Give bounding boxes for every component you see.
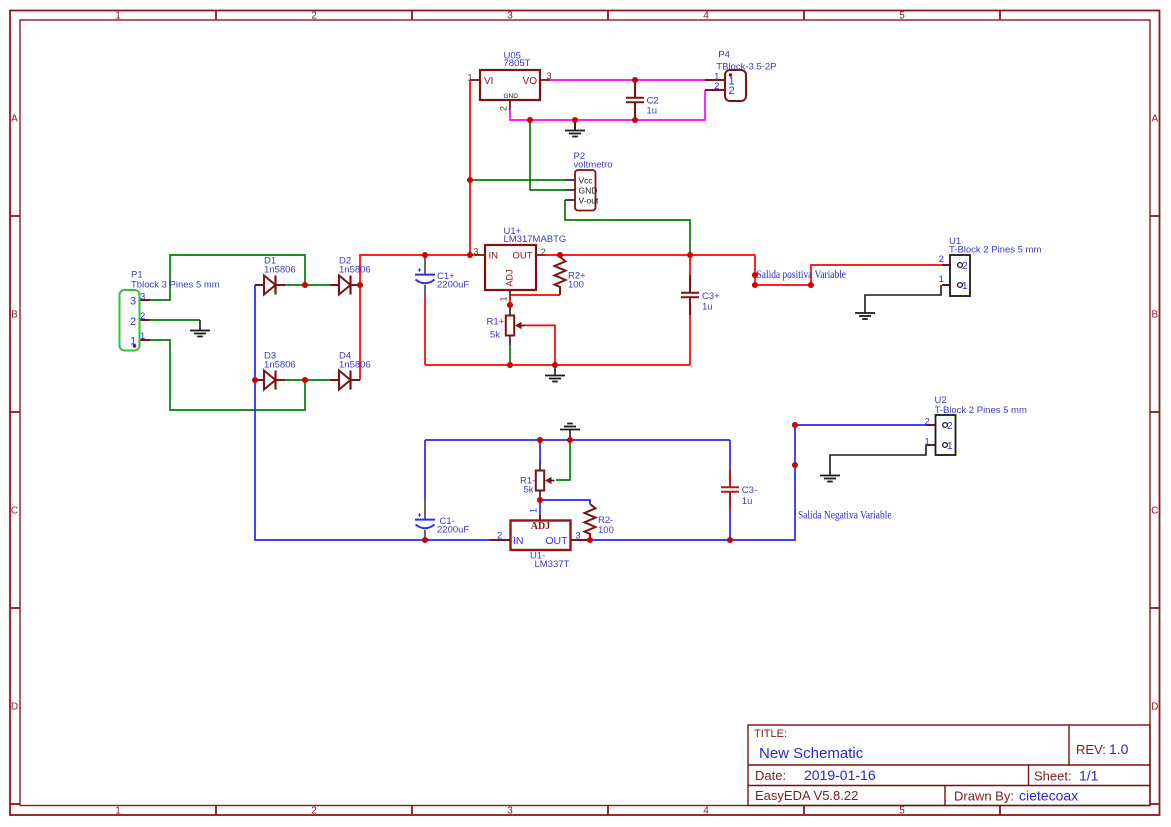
wire R1- wiper to ground rail (green) (556, 440, 570, 480)
svg-text:R1+: R1+ (487, 316, 505, 327)
wire U1 pin1 to ground (black) (865, 285, 941, 303)
net label Salida positiva Variable (757, 269, 847, 281)
svg-text:cietecoax: cietecoax (1019, 788, 1078, 804)
junction at 690,255 (687, 252, 693, 258)
svg-text:3: 3 (575, 531, 580, 542)
svg-text:TBlock-3.5-2P: TBlock-3.5-2P (716, 61, 776, 72)
svg-text:B: B (1151, 310, 1158, 321)
capacitor C1+ 2200uF (electrolytic) (415, 255, 469, 295)
svg-text:1u: 1u (647, 106, 658, 117)
svg-text:ADJ: ADJ (505, 269, 515, 286)
wire R2+ bottom to ADJ (red) (510, 294, 560, 296)
svg-text:7805T: 7805T (504, 58, 531, 69)
junction at 811,285 (808, 282, 814, 288)
svg-text:LM317MABTG: LM317MABTG (504, 234, 567, 245)
svg-text:2200uF: 2200uF (437, 525, 469, 536)
junction at 755,275 (752, 272, 758, 278)
wire P1 pin2 to ground (green) (150, 319, 200, 321)
svg-text:REV:: REV: (1076, 742, 1106, 757)
wire C3- bottom branch (blue) (729, 509, 731, 540)
svg-text:1n5806: 1n5806 (339, 359, 371, 370)
wire negative top rail (blue) (425, 439, 730, 441)
svg-text:1u: 1u (702, 301, 713, 312)
svg-text:1u: 1u (742, 496, 753, 507)
svg-text:Tblock 3 Pines 5 mm: Tblock 3 Pines 5 mm (131, 280, 220, 291)
regulator U05 7805T (467, 50, 551, 111)
wire C3+ bottom (red) (689, 315, 691, 365)
junction at 635,80 (632, 77, 638, 83)
junction at 590,540 (587, 537, 593, 543)
svg-text:1: 1 (115, 806, 121, 817)
junction at 795,465 (792, 462, 798, 468)
svg-text:1: 1 (924, 437, 929, 448)
wire U05 VO to P4 pin1 (magenta) (550, 79, 705, 81)
wire +OUT to U1 pin2 (red) (755, 255, 942, 285)
wire P2 GND (green) (530, 120, 565, 190)
wire ADJ- node to U1- ADJ pin (blue) (539, 500, 541, 515)
svg-text:2: 2 (714, 81, 719, 92)
svg-text:2200uF: 2200uF (437, 279, 469, 290)
svg-text:D: D (11, 702, 18, 713)
wire C1+ to bottom +rail (red) (424, 295, 426, 365)
wire C3- top branch (blue) (729, 440, 731, 470)
capacitor C2 1u (626, 80, 659, 120)
svg-text:LM337T: LM337T (535, 559, 570, 570)
svg-text:3: 3 (507, 11, 513, 22)
svg-text:V-out: V-out (579, 196, 599, 206)
diode D1 1n5806 (255, 284, 264, 286)
regulator U1+ LM317MABTG (473, 226, 566, 302)
svg-text:Sheet:: Sheet: (1034, 769, 1072, 784)
ground U1 pin1 (864, 303, 866, 313)
svg-text:3: 3 (473, 246, 478, 256)
wire P2 Vcc (green) (470, 179, 565, 181)
svg-text:1: 1 (962, 281, 968, 292)
junction at 635,120 (632, 117, 638, 123)
svg-text:1: 1 (130, 335, 136, 347)
connector P2 voltmetro (565, 151, 613, 211)
svg-text:1: 1 (939, 274, 944, 285)
capacitor C1- 2200uF (electrolytic) (415, 500, 469, 540)
ground negative top rail (flipped) (569, 430, 571, 440)
svg-text:1: 1 (529, 508, 539, 513)
wire C3+ top (red) (689, 255, 691, 275)
svg-text:voltmetro: voltmetro (574, 160, 613, 171)
svg-text:2: 2 (541, 247, 546, 257)
potentiometer R1+ 5k (487, 305, 525, 365)
svg-text:Vcc: Vcc (579, 176, 594, 186)
svg-text:2: 2 (924, 417, 929, 428)
junction at 510,365 (507, 362, 513, 368)
wire C1- top branch (blue) (424, 440, 426, 500)
svg-text:2: 2 (311, 11, 317, 22)
junction at 555,365 (552, 362, 558, 368)
ground U2 pin1 (829, 465, 831, 475)
wire ADJ+ pin to R1+ (red) (509, 300, 511, 305)
junction at 425,255 (422, 252, 428, 258)
svg-text:2: 2 (499, 106, 509, 111)
svg-text:Date:: Date: (755, 768, 786, 783)
svg-text:100: 100 (598, 525, 614, 536)
svg-text:A: A (11, 114, 18, 125)
svg-text:TITLE:: TITLE: (754, 728, 787, 740)
svg-text:1n5806: 1n5806 (264, 264, 296, 275)
wire D1 cathode to D2 anode (green) (285, 284, 330, 286)
diode D4 1n5806 (330, 379, 339, 381)
svg-text:P4: P4 (718, 50, 730, 61)
svg-text:1: 1 (115, 11, 121, 22)
svg-text:5: 5 (899, 806, 905, 817)
svg-text:5k: 5k (490, 330, 500, 341)
potentiometer R1- 5k (520, 461, 555, 500)
svg-text:2: 2 (140, 311, 145, 322)
wire +OUT rail (red) (546, 254, 755, 256)
regulator U1- LM337T (490, 508, 590, 570)
svg-text:VO: VO (523, 76, 538, 87)
svg-text:1: 1 (140, 331, 145, 342)
svg-text:Salida positiva Variable: Salida positiva Variable (757, 269, 847, 281)
svg-text:1: 1 (499, 296, 509, 301)
junction at 470,180 (467, 177, 473, 183)
svg-text:2: 2 (728, 85, 734, 97)
wire ADJ- node to R2- (blue) (540, 500, 590, 504)
connector P4 TBlock-3.5-2P (705, 50, 776, 102)
junction at 305,285 (302, 282, 308, 288)
wire P2 V-out to +OUT rail (green) (565, 200, 690, 255)
junction at 530,120 (527, 117, 533, 123)
wire U2 pin1 to ground (black) (830, 445, 926, 465)
svg-text:C: C (1151, 506, 1158, 517)
svg-text:C3-: C3- (742, 485, 757, 496)
svg-text:2: 2 (939, 254, 944, 265)
svg-text:3: 3 (140, 291, 145, 302)
junction at 425,540 (422, 537, 428, 543)
svg-text:OUT: OUT (545, 535, 568, 547)
svg-text:A: A (1151, 114, 1158, 125)
wire U05 GND to P4 pin2 (magenta) (510, 90, 705, 120)
svg-text:3: 3 (130, 295, 136, 307)
svg-text:2: 2 (311, 806, 317, 817)
ground bottom +rail (554, 365, 556, 375)
svg-text:EasyEDA V5.8.22: EasyEDA V5.8.22 (755, 788, 858, 803)
svg-text:2: 2 (962, 261, 968, 272)
wire R1- top (blue) (539, 440, 541, 461)
junction at 305,380 (302, 377, 308, 383)
svg-text:IN: IN (513, 535, 524, 547)
svg-text:100: 100 (568, 280, 584, 291)
net label Salida Negativa Variable (798, 509, 892, 521)
diode D3 1n5806 (255, 379, 264, 381)
junction at 360,285 (357, 282, 363, 288)
junction at 575,120 (572, 117, 578, 123)
svg-text:3: 3 (546, 71, 551, 82)
svg-text:C: C (11, 506, 18, 517)
R1+ bottom lead (green) (509, 345, 511, 365)
svg-text:Salida Negativa Variable: Salida Negativa Variable (798, 509, 892, 521)
wire P1 pin1 to D3/D4 node (green) (150, 340, 305, 410)
svg-text:B: B (11, 310, 18, 321)
diode D2 1n5806 (330, 284, 339, 286)
junction at 510,305 (507, 302, 513, 308)
connector U2 T-Block 2 Pines 5 mm (924, 395, 1027, 455)
svg-text:VI: VI (484, 76, 493, 87)
wire bottom +rail (red) (425, 364, 690, 366)
junction at 755,285 (752, 282, 758, 288)
svg-text:Drawn By:: Drawn By: (954, 789, 1014, 804)
junction at 540,440 (537, 437, 543, 443)
wire D3 cathode to D4 anode (green) (285, 379, 330, 381)
ground near C2 (574, 120, 576, 130)
wire R1+ wiper to bottom rail (red) (525, 325, 556, 365)
svg-text:T-Block 2 Pines 5 mm: T-Block 2 Pines 5 mm (935, 405, 1027, 416)
capacitor C3- 1u (721, 470, 757, 509)
wire U05 pin1 to +IN rail (red vertical) (469, 80, 471, 255)
junction at 730,540 (727, 537, 733, 543)
svg-text:2: 2 (947, 421, 953, 432)
svg-text:ADJ: ADJ (531, 521, 550, 532)
resistor R2- 100 (585, 504, 614, 540)
capacitor C3+ 1u (681, 275, 720, 315)
wire P1 pin3 to D1/D2 node (green) (150, 255, 305, 300)
svg-text:1/1: 1/1 (1079, 768, 1099, 784)
svg-text:2: 2 (497, 531, 502, 542)
svg-text:2019-01-16: 2019-01-16 (804, 767, 876, 783)
svg-text:New Schematic: New Schematic (759, 745, 864, 762)
junction at 255,380 (252, 377, 258, 383)
resistor R2+ 100 (555, 257, 587, 295)
svg-text:3: 3 (507, 806, 513, 817)
connector U1 T-Block 2 Pines 5 mm (939, 236, 1042, 296)
junction at 570,440 (567, 437, 573, 443)
junction at 560,255 (557, 252, 563, 258)
svg-text:4: 4 (703, 11, 709, 22)
svg-text:5: 5 (899, 11, 905, 22)
wire -OUT rail to U2 pin2 (blue) (590, 425, 925, 540)
svg-text:D: D (1151, 702, 1158, 713)
svg-text:2: 2 (130, 316, 136, 328)
svg-text:4: 4 (703, 806, 709, 817)
wire positive node D2/D4 cathodes (red) (360, 255, 475, 380)
ground P1 pin2 (199, 320, 201, 330)
svg-text:1.0: 1.0 (1109, 741, 1129, 757)
connector P1 Tblock 3 Pines 5 mm (120, 270, 220, 351)
svg-text:1: 1 (947, 441, 953, 452)
svg-text:1n5806: 1n5806 (264, 359, 296, 370)
svg-text:1: 1 (467, 73, 472, 84)
wire negative node D1/D3 anodes to LM337 IN (blue) (255, 285, 490, 540)
title block (748, 725, 1150, 806)
svg-text:1n5806: 1n5806 (339, 264, 371, 275)
junction at 795,425 (792, 422, 798, 428)
svg-text:GND: GND (579, 186, 598, 196)
svg-text:GND: GND (504, 93, 519, 100)
junction at 540,500 (537, 497, 543, 503)
svg-text:T-Block 2 Pines 5 mm: T-Block 2 Pines 5 mm (949, 244, 1041, 255)
junction at 470,255 (467, 252, 473, 258)
svg-text:5k: 5k (524, 484, 534, 495)
svg-text:IN: IN (489, 251, 499, 262)
svg-text:OUT: OUT (513, 251, 533, 262)
